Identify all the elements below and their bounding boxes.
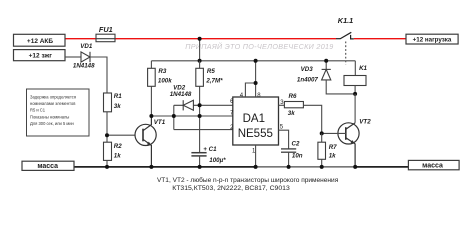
wire VT2 base [322,132,346,134]
node dot pins4/8 [254,81,258,85]
svg-text:FU1: FU1 [99,25,113,34]
resistor R2 [104,142,112,160]
wire R5 bottom column to C1 [199,86,201,152]
wire distribution to K1 coil [354,61,356,76]
wire pin6 line [200,104,233,106]
switch contact K1.1 [336,32,354,39]
svg-text:R3: R3 [158,68,166,75]
node dot ground R7 [320,165,324,169]
wire R3 top lead [150,61,152,69]
node terminal box +12 нагрузка [406,34,458,44]
diode VD1 [81,52,90,62]
svg-text:VT2: VT2 [359,119,371,126]
wire K1 to collector node [354,86,356,94]
note box [27,89,90,136]
wire R7 to ground [321,159,323,167]
wire pins 4/8 to distribution [245,83,255,97]
wire R3 bottom to node [150,86,152,116]
wire R7 top lead [321,133,323,142]
ground rail right thick [355,166,408,168]
wire VD2 cathode riser to pin2 line [173,105,175,129]
node terminal box +12 зжг [14,50,66,61]
svg-text:R5: R5 [207,68,215,75]
wire pin5 to C2 [279,130,289,149]
wire pin7 line [151,115,232,117]
wire +12 red rail from АКБ to switch [65,38,336,40]
node dot ground VT1 emitter [149,165,153,169]
node dot ground R2 [105,165,109,169]
wire +12 distribution line [151,60,355,62]
node dot base/R6/R7 [320,131,324,135]
diode VD3 [322,69,331,80]
svg-text:VT1, VT2 - любые n-p-n транзис: VT1, VT2 - любые n-p-n транзисторы широк… [157,176,339,184]
svg-text:+12 нагрузка: +12 нагрузка [413,36,452,43]
svg-text:1N4148: 1N4148 [170,91,192,98]
wire mechanical link dashed [345,42,347,65]
node dot R5 column on pin6 line [198,103,202,107]
svg-text:1k: 1k [329,153,336,160]
node dot ground C1 [198,165,202,169]
svg-text:NE555: NE555 [238,128,273,140]
svg-text:ПРИПАЯЙ ЭТО ПО-ЧЕЛОВЕЧЕСКИ 201: ПРИПАЯЙ ЭТО ПО-ЧЕЛОВЕЧЕСКИ 2019 [185,42,333,51]
svg-text:R6: R6 [289,93,297,100]
wire +12 red rail from switch to нагрузка [354,38,406,40]
svg-text:R1: R1 [114,93,122,100]
node dot R5 column on pin7 line [198,114,202,118]
svg-text:Показаны номиналы: Показаны номиналы [30,114,69,119]
diode VD2 [174,100,200,110]
svg-text:+ C1: + C1 [203,146,217,153]
resistor R6 [284,102,303,108]
wire VD3 anode to collector node [326,80,355,94]
resistor R5 [196,68,204,86]
svg-text:масса: масса [37,163,58,170]
wire зжг to VD1 [65,56,81,58]
wire base VT1 [107,134,143,136]
VT1 emitter arrow [147,142,152,146]
node dot VD3/K1/VT2 collector [353,92,357,96]
svg-text:+12 зжг: +12 зжг [29,53,53,60]
wire pin3 to R6 [279,104,285,106]
svg-text:100µ*: 100µ* [209,157,226,164]
wire riser red rail to distribution [199,39,201,61]
capacitor C1 [191,153,206,156]
op-amp U1 : IC DA1 NE555 box [233,97,279,145]
transistor VT2 [338,123,359,167]
svg-text:+12 АКБ: +12 АКБ [27,38,53,45]
svg-text:Задержка определяется: Задержка определяется [30,94,76,99]
wire VT2 collector [354,94,356,123]
wire distribution to VD3 [325,61,327,69]
node dot VD2 riser on pin7 line [172,114,176,118]
resistor R1 [104,93,112,112]
wire C1 bottom to ground [199,156,201,167]
VT2 emitter arrow [351,140,356,144]
wire pin2 line [174,129,233,131]
ground rail middle [256,166,356,168]
wire R5 top lead [199,61,201,69]
node dot ground C2 [287,165,291,169]
svg-text:R7: R7 [329,144,337,151]
ground rail left thick [74,166,256,168]
node dot distribution/R5 [198,59,202,63]
node dot on red rail [198,37,202,41]
svg-text:K1.1: K1.1 [338,16,353,25]
node dot ground pin1 [254,165,258,169]
svg-text:R5 и C1: R5 и C1 [30,108,46,113]
svg-text:DA1: DA1 [243,113,265,125]
relay coil K1 [344,76,366,86]
wire pin1 to ground [255,145,257,167]
resistor R7 [318,142,326,159]
capacitor C2 [281,149,296,152]
svg-text:K1: K1 [359,65,367,72]
svg-text:номиналами элементов: номиналами элементов [30,101,75,106]
svg-text:VD1: VD1 [80,43,93,50]
wire C2 bottom to ground [288,152,290,167]
svg-text:R2: R2 [114,143,122,150]
wire VD1 to R1 top [90,57,107,93]
svg-text:10n: 10n [292,153,303,160]
svg-text:VT1: VT1 [154,119,166,126]
resistor R3 [148,68,156,86]
svg-text:C2: C2 [292,141,300,148]
svg-text:Для 300 сек, или 5 мин: Для 300 сек, или 5 мин [30,121,74,126]
wire R2 to ground [106,160,108,167]
wire R1 to R2 [106,112,108,142]
node dot R3/VT1 collector [149,114,153,118]
transistor VT1 [135,116,156,167]
svg-text:100k: 100k [158,78,172,85]
node terminal box масса right [408,160,459,169]
svg-text:3k: 3k [288,110,295,117]
svg-text:1N4148: 1N4148 [73,62,95,69]
node terminal box +12 АКБ [14,34,66,46]
svg-text:КТ315,КТ503, 2N2222, BC817, C9: КТ315,КТ503, 2N2222, BC817, C9013 [172,185,290,192]
node dot distribution at pins riser [254,59,258,63]
fuse FU1 [96,34,115,42]
node dot at VD3 riser [324,59,328,63]
svg-text:2,7M*: 2,7M* [205,77,223,84]
svg-text:3k: 3k [114,103,121,110]
svg-text:VD3: VD3 [301,66,314,73]
svg-text:1n4007: 1n4007 [297,76,319,83]
node dot ground VT2 emitter [353,165,357,169]
svg-text:масса: масса [422,162,443,169]
svg-text:1k: 1k [114,153,121,160]
wire R6 to VT2 base node [303,105,321,133]
node junction R1/R2/base [105,133,109,137]
node terminal box масса left [22,161,74,170]
